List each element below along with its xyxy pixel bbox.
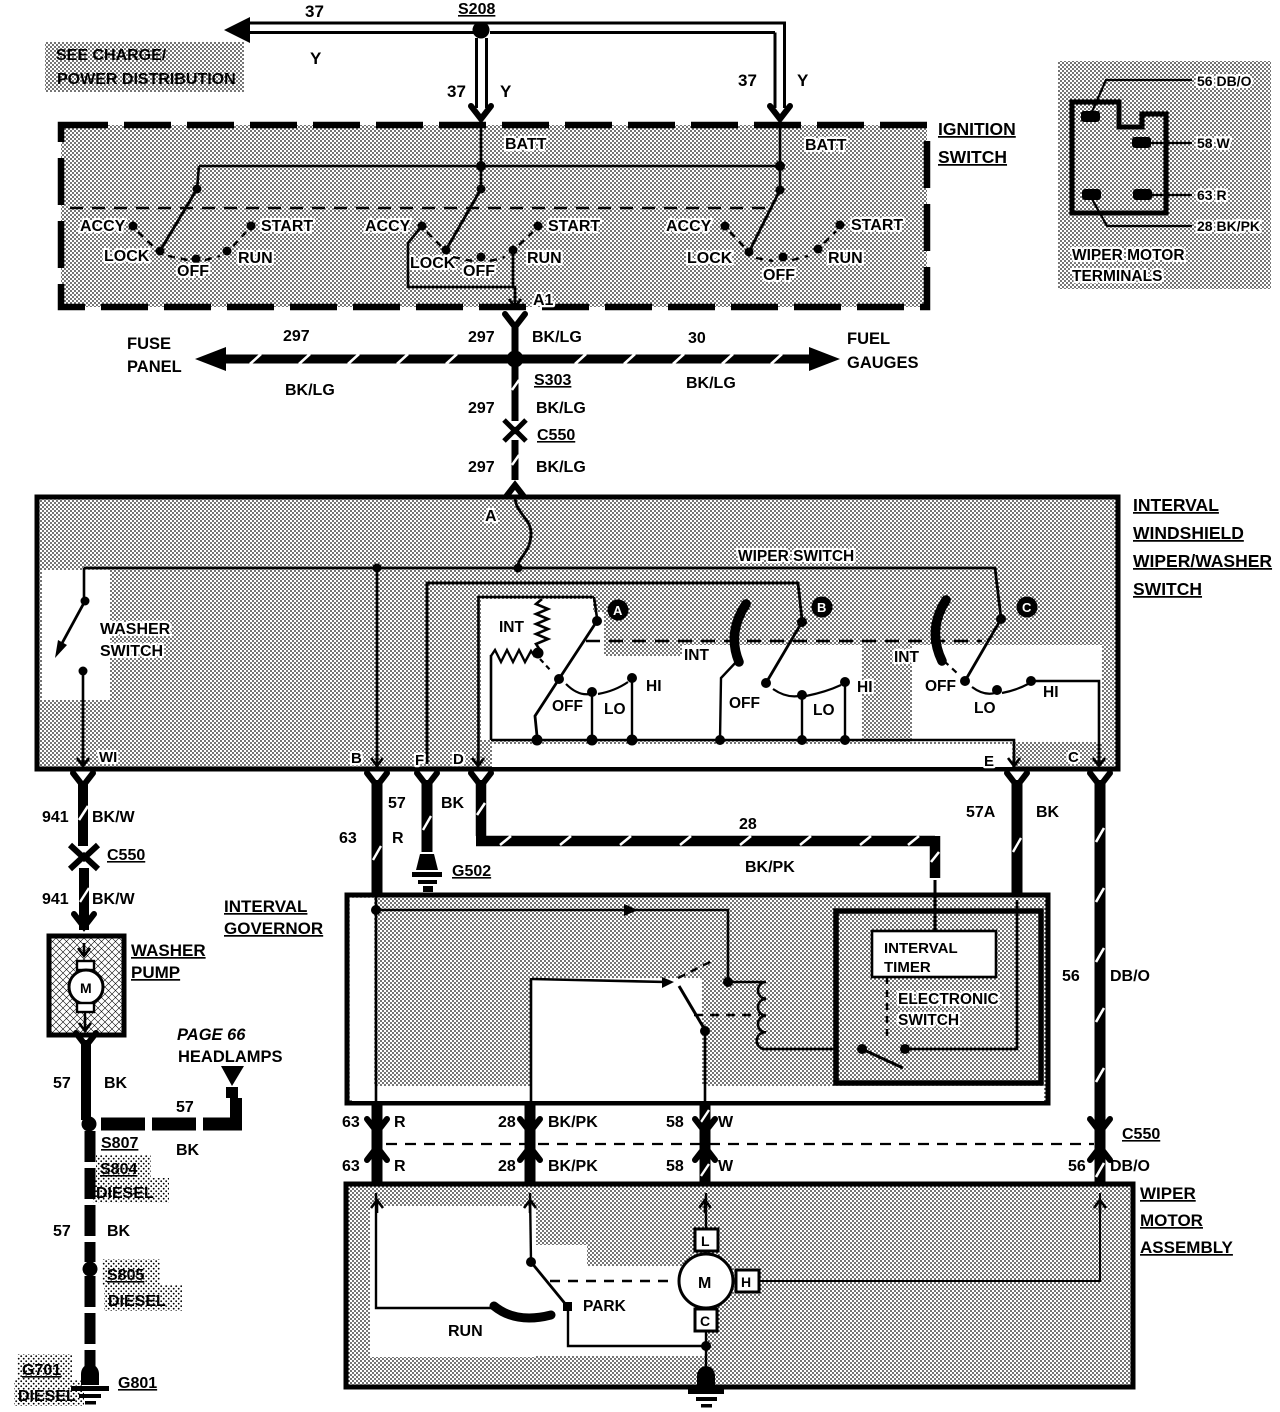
contact ACCY 3 [721, 222, 730, 231]
svg-text:WIPER: WIPER [1140, 1184, 1196, 1203]
terminal E [1008, 753, 1020, 766]
white zone relay [532, 978, 702, 1100]
svg-text:BK: BK [176, 1142, 200, 1159]
svg-text:37: 37 [738, 71, 757, 90]
contact RUN 1 [223, 247, 232, 256]
feed bus inside switch box [84, 568, 1001, 618]
svg-text:BK: BK [107, 1223, 131, 1240]
dashed divider inside ignition switch [70, 207, 770, 210]
contact bus line [491, 740, 1014, 764]
svg-text:58: 58 [666, 1158, 684, 1175]
svg-text:START: START [261, 218, 313, 235]
svg-text:58: 58 [666, 1114, 684, 1131]
terminal pad 58 [1132, 137, 1151, 148]
svg-text:C550: C550 [537, 427, 575, 444]
contact PARK [563, 1302, 572, 1311]
terminal B [371, 753, 383, 766]
arrow A1 out of ignition switch [509, 294, 521, 307]
svg-text:OFF: OFF [177, 263, 209, 280]
label G701 DIESEL [14, 1354, 84, 1406]
svg-text:M: M [80, 980, 92, 996]
ground wiper motor [688, 1366, 724, 1408]
svg-text:TERMINALS: TERMINALS [1072, 268, 1162, 285]
svg-text:297: 297 [468, 329, 495, 346]
label S805 DIESEL [102, 1259, 182, 1311]
svg-text:WINDSHIELD: WINDSHIELD [1133, 523, 1244, 543]
svg-text:BK/LG: BK/LG [686, 375, 736, 392]
electronic switch box [836, 911, 1041, 1083]
wire 941 BK/W washer to C550 [79, 782, 88, 846]
wire 28 BK/PK inside governor [530, 978, 533, 1103]
ignition switch pole 1 wire [197, 166, 199, 189]
wire 57 BK S807 to S805 (dashed thick) [85, 1131, 96, 1262]
wire A1 feed from ACCY/RUN contacts [408, 226, 515, 300]
svg-text:RUN: RUN [238, 250, 273, 267]
svg-text:MOTOR: MOTOR [1140, 1211, 1203, 1230]
wire PARK to C terminal [568, 1311, 705, 1346]
washer pump [49, 936, 124, 1035]
junction node [476, 161, 486, 171]
wire 57 BK washer pump down [81, 1040, 91, 1120]
leader 63 R [1152, 194, 1192, 196]
svg-text:RUN: RUN [828, 250, 863, 267]
contact LOCK 3 [745, 248, 754, 257]
terminal L [695, 1229, 718, 1251]
contact HI C [1026, 676, 1036, 686]
svg-text:HI: HI [1043, 684, 1059, 701]
svg-text:BK/LG: BK/LG [536, 459, 586, 476]
svg-text:30: 30 [688, 330, 706, 347]
label S804 DIESEL [92, 1155, 169, 1203]
wire 58 W to L terminal [705, 1193, 707, 1229]
terminal WI [77, 753, 89, 766]
wiper switch B crescent [734, 604, 746, 662]
svg-text:A: A [485, 508, 497, 525]
wire HI C to terminal C [1031, 681, 1099, 764]
wire from B junction down to terminal B [376, 568, 379, 764]
svg-text:H: H [741, 1274, 751, 1290]
wire 297 BK/LG from S303 to C550 [512, 364, 519, 421]
wiper switch C crescent [935, 600, 946, 661]
svg-text:W: W [718, 1114, 734, 1131]
travel arc 1 [138, 232, 246, 260]
wiper switch A resistor network box [479, 597, 595, 765]
svg-text:DIESEL: DIESEL [96, 1185, 154, 1202]
svg-text:BK: BK [104, 1075, 128, 1092]
svg-text:A: A [613, 603, 623, 618]
svg-text:OFF: OFF [729, 695, 760, 712]
ignition switch box [61, 125, 927, 307]
resistor (horizontal) [491, 650, 535, 662]
svg-text:FUEL: FUEL [847, 330, 890, 348]
svg-text:C: C [1022, 600, 1032, 615]
white zone run/park switch [370, 1206, 536, 1357]
svg-text:WASHER: WASHER [131, 941, 206, 960]
svg-text:58 W: 58 W [1197, 135, 1230, 151]
switch C feed contact [996, 614, 1006, 624]
svg-text:56 DB/O: 56 DB/O [1197, 73, 1252, 89]
contact START 2 [534, 222, 543, 231]
wire 57 BK terminal F to ground [423, 780, 431, 852]
junction node [775, 161, 785, 171]
svg-text:M: M [698, 1275, 711, 1292]
contact OFF 3 [779, 253, 788, 262]
headlamps feed symbol [221, 1066, 244, 1086]
svg-text:BK/PK: BK/PK [548, 1114, 598, 1131]
svg-text:HI: HI [857, 679, 873, 696]
wire 63 R to RUN contact [376, 1193, 492, 1308]
contact RUN crescent [494, 1306, 551, 1318]
svg-text:63 R: 63 R [1197, 187, 1227, 203]
svg-text:C: C [700, 1313, 710, 1329]
interval timer box [872, 931, 996, 977]
wire BATT left branch inside ignition switch [480, 128, 483, 166]
svg-text:57A: 57A [966, 804, 996, 821]
wire 28 to park switch pivot [530, 1193, 531, 1261]
arrow to charge/power distribution [224, 17, 250, 43]
svg-text:941: 941 [42, 891, 69, 908]
svg-text:ACCY: ACCY [666, 218, 712, 235]
white zone below contact bus [492, 744, 1012, 767]
svg-text:DIESEL: DIESEL [108, 1293, 166, 1310]
relay fixed contact line [532, 979, 666, 982]
wire 28 BK/PK governor to motor [525, 1105, 536, 1185]
svg-text:OFF: OFF [925, 678, 956, 695]
wire 37 Y feed (horizontal double line) [248, 23, 786, 33]
terminal pad 28 [1133, 189, 1152, 200]
contact HI B [840, 677, 850, 687]
svg-text:S807: S807 [101, 1135, 138, 1152]
svg-text:C550: C550 [107, 847, 145, 864]
travel arc C [972, 684, 1028, 694]
wire 63 R through governor [375, 897, 378, 1101]
wire 63 R governor to motor [372, 1105, 383, 1185]
wire C to ground [705, 1331, 707, 1378]
interval governor box [347, 895, 1048, 1103]
leader 56 DB/O [1091, 80, 1192, 114]
splice S805 [83, 1262, 98, 1277]
timer link dashed [886, 977, 888, 1041]
wire 63 R terminal B to governor [373, 780, 381, 895]
contact ACCY 1 [129, 222, 138, 231]
contact LOCK 1 [156, 247, 165, 256]
svg-text:BK/PK: BK/PK [548, 1158, 598, 1175]
svg-text:PANEL: PANEL [127, 358, 182, 376]
svg-text:57: 57 [53, 1223, 71, 1240]
svg-text:LO: LO [974, 700, 996, 717]
svg-text:37: 37 [447, 82, 466, 101]
wire resistor leg to bus [490, 655, 493, 740]
contact RUN 3 [814, 245, 823, 254]
svg-text:28: 28 [498, 1114, 516, 1131]
ignition switch pole 2 lever [446, 189, 481, 250]
connector C550 washer [70, 845, 98, 869]
ignition switch pole 2 wire [480, 166, 483, 189]
svg-text:LO: LO [813, 702, 835, 719]
connector C550 inline [504, 420, 526, 441]
svg-text:HI: HI [646, 678, 662, 695]
svg-text:OFF: OFF [463, 263, 495, 280]
svg-text:F: F [415, 752, 424, 769]
svg-text:37: 37 [305, 2, 324, 21]
svg-text:POWER DISTRIBUTION: POWER DISTRIBUTION [57, 71, 236, 88]
coil link dashes [694, 1014, 760, 1016]
svg-text:63: 63 [342, 1114, 360, 1131]
wire 58 W inside governor [704, 1031, 707, 1101]
svg-text:RUN: RUN [448, 1323, 483, 1340]
terminal badge B [812, 597, 833, 618]
svg-text:297: 297 [468, 400, 495, 417]
svg-text:63: 63 [342, 1158, 360, 1175]
travel arc 3 [730, 231, 836, 261]
relay feed node [723, 977, 733, 987]
wire 57A BK terminal E to governor [1013, 780, 1021, 897]
svg-text:START: START [851, 217, 903, 234]
svg-text:56: 56 [1062, 968, 1080, 985]
ignition switch pole 1 lever [160, 189, 197, 251]
note: SEE CHARGE/POWER DISTRIBUTION [45, 42, 244, 92]
wiper switch feed line to B contact [427, 583, 802, 764]
wire 30 BK/LG fuse panel / fuel gauges [195, 347, 840, 371]
relay link dashes [678, 961, 712, 978]
svg-text:WIPER MOTOR: WIPER MOTOR [1072, 247, 1185, 264]
svg-text:INT: INT [499, 619, 525, 636]
contact START 3 [836, 221, 845, 230]
terminal pad 63 [1082, 189, 1101, 200]
svg-text:IGNITION: IGNITION [938, 119, 1016, 139]
svg-text:ASSEMBLY: ASSEMBLY [1140, 1238, 1234, 1257]
terminal C [695, 1309, 717, 1331]
svg-text:R: R [392, 830, 404, 847]
switch B blade [766, 622, 802, 683]
travel arc A [566, 682, 628, 694]
splice S208 [473, 22, 490, 39]
svg-text:G801: G801 [118, 1375, 157, 1392]
svg-text:START: START [548, 218, 600, 235]
ground G502 [412, 854, 442, 892]
link dashes C [944, 661, 957, 673]
leader 58 W [1151, 142, 1192, 144]
svg-text:C: C [1068, 749, 1079, 766]
wire 57 BK S805 to ground (dashed thick) [85, 1276, 96, 1372]
svg-text:297: 297 [283, 328, 310, 345]
svg-text:56: 56 [1068, 1158, 1086, 1175]
svg-text:SEE CHARGE/: SEE CHARGE/ [56, 47, 167, 64]
svg-text:INTERVAL: INTERVAL [224, 897, 307, 916]
svg-text:E: E [984, 753, 994, 770]
svg-text:R: R [394, 1114, 406, 1131]
wire 57 to headlamps (thick dashed) [230, 1098, 242, 1120]
svg-text:BK/PK: BK/PK [745, 859, 795, 876]
ignition switch pole 3 lever [749, 190, 780, 252]
wiper motor assembly box [346, 1184, 1133, 1387]
svg-text:DB/O: DB/O [1110, 968, 1150, 985]
svg-text:S303: S303 [534, 372, 571, 389]
svg-text:WI: WI [99, 749, 117, 766]
wire 57A inside governor [905, 900, 1017, 1049]
svg-text:ACCY: ACCY [80, 218, 126, 235]
wiper motor terminals panel [1058, 61, 1271, 289]
wire 56 DB/O terminal C to wiper motor [1096, 780, 1104, 1183]
svg-text:GAUGES: GAUGES [847, 354, 919, 372]
relay coil [728, 982, 836, 1049]
svg-text:LOCK: LOCK [410, 255, 456, 272]
svg-text:LOCK: LOCK [104, 248, 150, 265]
contact LO A [587, 687, 597, 697]
svg-text:WIPER SWITCH: WIPER SWITCH [738, 548, 854, 565]
wire crescent B to bus [720, 660, 738, 740]
travel arc B [773, 685, 841, 696]
switch A blade [535, 621, 597, 736]
relay blade [679, 986, 705, 1030]
contact RUN 2 [509, 246, 518, 255]
svg-text:PUMP: PUMP [131, 963, 180, 982]
bus wire from BATT across ignition switch [199, 165, 780, 168]
svg-text:57: 57 [53, 1075, 71, 1092]
white zone washer switch [42, 570, 110, 700]
svg-text:B: B [351, 750, 362, 767]
svg-text:Y: Y [797, 71, 809, 90]
svg-text:297: 297 [468, 459, 495, 476]
svg-text:SWITCH: SWITCH [898, 1012, 959, 1029]
svg-text:PARK: PARK [583, 1298, 627, 1315]
svg-text:941: 941 [42, 809, 69, 826]
svg-text:BK/LG: BK/LG [536, 400, 586, 417]
svg-text:G701: G701 [22, 1362, 61, 1379]
wire H to 56 DB/O [759, 1193, 1100, 1281]
entry arrows [371, 1200, 383, 1213]
svg-text:S804: S804 [100, 1161, 137, 1178]
contact ACCY 2 [418, 222, 427, 231]
white zone wiper switch A [481, 599, 593, 656]
svg-text:INT: INT [894, 649, 920, 666]
svg-text:INT: INT [684, 647, 710, 664]
svg-text:A1: A1 [533, 292, 554, 309]
terminal badge A [608, 600, 629, 621]
splice S303 [507, 351, 524, 368]
splice S807 [82, 1117, 97, 1132]
svg-text:INTERVAL: INTERVAL [884, 940, 958, 957]
ignition switch pole 3 wire [779, 166, 782, 190]
svg-text:G502: G502 [452, 863, 491, 880]
wire 28 BK/PK terminal D to interval timer [476, 780, 939, 878]
svg-text:Y: Y [500, 82, 512, 101]
svg-text:LOCK: LOCK [687, 250, 733, 267]
leader 28 BK/PK [1092, 199, 1192, 226]
svg-text:RUN: RUN [527, 250, 562, 267]
svg-text:BK/LG: BK/LG [285, 382, 335, 399]
link dashes to motor [550, 1280, 674, 1282]
svg-text:TIMER: TIMER [884, 959, 931, 976]
svg-text:S208: S208 [458, 1, 495, 18]
svg-text:ACCY: ACCY [365, 218, 411, 235]
electronic switch contacts [857, 1044, 867, 1054]
svg-text:WIPER/WASHER: WIPER/WASHER [1133, 551, 1272, 571]
travel arc 2 [427, 232, 533, 261]
contact HI A [627, 673, 637, 683]
washer switch [83, 568, 86, 601]
switch A feed contact [592, 616, 602, 626]
wire 297 BK/LG from C550 into switch box [512, 440, 519, 480]
svg-text:FUSE: FUSE [127, 335, 171, 353]
svg-text:SWITCH: SWITCH [100, 643, 163, 660]
svg-text:HEADLAMPS: HEADLAMPS [178, 1048, 283, 1066]
svg-text:WASHER: WASHER [100, 621, 171, 638]
white zone wiper switch B [682, 645, 862, 740]
contact OFF 2 [477, 253, 486, 262]
contact OFF 1 [192, 255, 201, 264]
svg-text:C550: C550 [1122, 1126, 1160, 1143]
wire BATT right branch inside ignition switch [779, 128, 782, 166]
svg-text:28 BK/PK: 28 BK/PK [1197, 218, 1260, 234]
switch C blade [965, 619, 1001, 681]
svg-text:BK: BK [441, 795, 465, 812]
wire 297 BK/LG from A1 to S303 [512, 326, 519, 356]
svg-text:63: 63 [339, 830, 357, 847]
wiper motor M [679, 1254, 733, 1308]
svg-text:BK/W: BK/W [92, 891, 136, 908]
svg-text:57: 57 [388, 795, 406, 812]
svg-text:LO: LO [604, 701, 626, 718]
terminal H [736, 1270, 759, 1292]
interval windshield wiper/washer switch box [37, 497, 1118, 769]
mechanical link dashes [540, 659, 552, 672]
svg-text:BATT: BATT [805, 137, 847, 154]
svg-text:W: W [718, 1158, 734, 1175]
svg-text:BK/W: BK/W [92, 809, 136, 826]
connector C550 dashed line [386, 1143, 1094, 1145]
svg-text:BATT: BATT [505, 136, 547, 153]
svg-text:DB/O: DB/O [1110, 1158, 1150, 1175]
contact START 1 [247, 222, 256, 231]
internal feed line with arrow [376, 910, 728, 978]
wire 941 BK/W C550 to washer pump [80, 868, 89, 930]
svg-text:OFF: OFF [763, 267, 795, 284]
terminal C [1093, 753, 1105, 766]
svg-text:B: B [817, 600, 826, 615]
svg-text:Y: Y [310, 49, 322, 68]
svg-text:L: L [701, 1233, 710, 1249]
svg-text:SWITCH: SWITCH [1133, 579, 1202, 599]
svg-text:28: 28 [498, 1158, 516, 1175]
svg-text:OFF: OFF [552, 698, 583, 715]
svg-text:D: D [453, 751, 464, 768]
contact LO C [992, 685, 1002, 695]
wire 28 into interval timer [934, 880, 937, 931]
wire 37 Y from S208 down to ignition switch [477, 38, 487, 108]
terminal pad 56 [1081, 111, 1100, 122]
contact LO B [797, 690, 807, 700]
svg-text:BK: BK [1036, 804, 1060, 821]
svg-text:DIESEL: DIESEL [18, 1388, 76, 1405]
svg-text:S805: S805 [107, 1267, 144, 1284]
svg-text:ELECTRONIC: ELECTRONIC [898, 991, 999, 1008]
wiper motor connector outline [1072, 102, 1166, 213]
svg-text:GOVERNOR: GOVERNOR [224, 919, 323, 938]
svg-text:INTERVAL: INTERVAL [1133, 495, 1219, 515]
svg-text:28: 28 [739, 816, 757, 833]
main travel dashed line [586, 640, 982, 643]
ground G801 [71, 1364, 109, 1405]
resistor INT (vertical) [536, 599, 548, 650]
svg-text:R: R [394, 1158, 406, 1175]
wire 37 Y right branch down to ignition switch [775, 23, 785, 108]
svg-text:SWITCH: SWITCH [938, 147, 1007, 167]
terminal badge C [1017, 597, 1038, 618]
contact LOCK 2 [442, 246, 451, 255]
park switch blade [531, 1262, 567, 1306]
white zone wiper switch C [912, 645, 1102, 742]
